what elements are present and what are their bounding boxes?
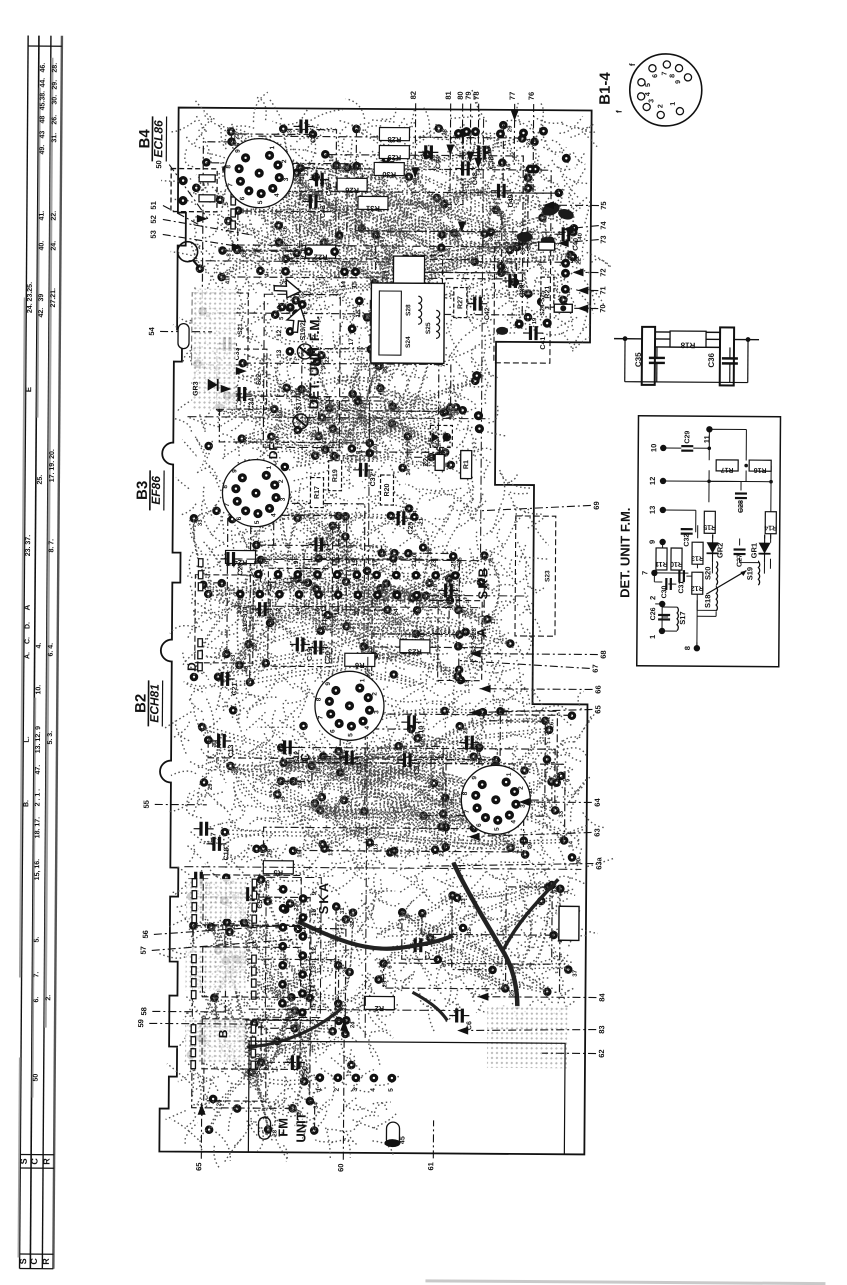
svg-text:S19: S19 (745, 567, 754, 580)
resistor R28 (379, 127, 409, 144)
svg-text:5: 5 (279, 316, 285, 320)
svg-text:R31: R31 (366, 204, 380, 213)
switch assembly S9-S10 (204, 1027, 267, 1101)
svg-text:R11: R11 (655, 560, 668, 567)
svg-text:14: 14 (340, 281, 347, 289)
svg-text:40: 40 (256, 607, 263, 615)
component 45 (384, 1122, 406, 1147)
capacitor C43 (303, 194, 327, 218)
svg-text:17. 19. 20.: 17. 19. 20. (49, 449, 56, 482)
svg-text:77: 77 (508, 92, 517, 100)
svg-text:23: 23 (431, 559, 438, 567)
capacitor C39 (502, 274, 526, 298)
svg-text:1: 1 (359, 678, 366, 682)
terminal lead 80 (455, 91, 465, 185)
svg-text:C47: C47 (476, 746, 483, 759)
svg-text:42.: 42. (38, 308, 45, 318)
component lead lines z0 (202, 123, 574, 316)
resistor R27 (454, 288, 467, 318)
svg-text:12: 12 (648, 477, 657, 485)
terminal lead 63 (469, 827, 602, 837)
label B1-4 (597, 72, 614, 105)
svg-text:C26: C26 (650, 607, 657, 620)
svg-text:R15: R15 (703, 523, 716, 530)
svg-text:22: 22 (373, 608, 380, 616)
switch assembly S13-S14 (195, 575, 254, 663)
svg-text:15: 15 (355, 310, 362, 318)
svg-text:71: 71 (598, 286, 607, 294)
connector SKB pad rows (232, 558, 478, 616)
switch assembly S24-S25 (494, 243, 551, 363)
svg-text:C43: C43 (320, 205, 327, 218)
capacitor C33 (217, 337, 241, 361)
resistor R30 (374, 162, 404, 179)
svg-text:6. 4.: 6. 4. (48, 643, 55, 657)
switch assembly S11-S12 (268, 568, 333, 666)
svg-text:65: 65 (194, 1163, 203, 1171)
svg-text:L.: L. (24, 736, 31, 742)
svg-text:C44: C44 (435, 156, 442, 169)
svg-text:14: 14 (310, 985, 317, 993)
svg-text:8: 8 (225, 165, 232, 169)
capacitor C50 (285, 1055, 309, 1079)
svg-text:C: C (298, 753, 312, 762)
svg-text:13: 13 (311, 966, 318, 974)
svg-text:15, 16.: 15, 16. (34, 859, 41, 881)
svg-text:D: D (185, 662, 199, 671)
svg-text:28.: 28. (52, 63, 59, 73)
stipple patch bottom right (487, 1006, 567, 1069)
svg-text:3: 3 (352, 1088, 359, 1092)
svg-text:R2: R2 (375, 1004, 385, 1013)
svg-text:S18: S18 (703, 595, 712, 608)
solder blobs (496, 200, 575, 335)
svg-text:33: 33 (287, 129, 293, 136)
pads row near R22 (281, 247, 364, 346)
terminal lead 67 (460, 661, 600, 673)
terminal lead 54 (147, 326, 212, 336)
svg-text:13: 13 (276, 349, 283, 357)
svg-text:53: 53 (149, 230, 158, 238)
svg-text:69: 69 (592, 501, 601, 509)
terminal group frame 3 (202, 1019, 300, 1070)
svg-text:16: 16 (329, 155, 335, 162)
svg-text:4: 4 (364, 726, 371, 730)
svg-text:S25: S25 (425, 322, 432, 334)
resistor R2 (364, 996, 394, 1013)
svg-text:DF: DF (266, 443, 280, 459)
switch assembly S26 (402, 255, 443, 345)
svg-text:2: 2 (334, 1088, 341, 1092)
svg-text:R27: R27 (457, 296, 464, 309)
svg-text:60: 60 (336, 1164, 345, 1172)
svg-text:11: 11 (311, 928, 318, 935)
capacitor C15 (188, 872, 212, 896)
svg-text:1: 1 (491, 620, 497, 624)
tube designation label B4 ECL86 (136, 116, 166, 161)
svg-text:29: 29 (507, 125, 513, 132)
label C (298, 753, 312, 762)
svg-text:40.: 40. (38, 241, 45, 251)
svg-text:C21: C21 (232, 682, 239, 695)
svg-text:R17: R17 (314, 486, 321, 499)
capacitor C45 (309, 172, 333, 196)
svg-text:f: f (628, 63, 637, 66)
svg-text:S17/18: S17/18 (296, 388, 303, 410)
svg-text:55: 55 (142, 800, 151, 808)
tube socket B2 (ECH81) (315, 671, 384, 740)
svg-text:C46: C46 (310, 130, 317, 143)
svg-text:54: 54 (147, 326, 156, 335)
svg-text:26: 26 (412, 608, 419, 616)
svg-text:7: 7 (227, 183, 234, 187)
svg-text:C38: C38 (488, 156, 495, 169)
svg-text:46.: 46. (40, 63, 47, 73)
resistor R24 (225, 550, 255, 567)
svg-text:44.: 44. (40, 78, 47, 88)
capacitor C23 (220, 552, 244, 576)
IF transformer S24/S25/S28 (371, 256, 445, 364)
svg-text:R10: R10 (670, 560, 683, 567)
svg-text:DET. UNIT F.M.: DET. UNIT F.M. (307, 316, 323, 410)
terminal lead 53 (149, 230, 243, 247)
svg-text:1: 1 (506, 772, 513, 776)
svg-text:7.: 7. (33, 972, 40, 978)
svg-text:FM: FM (275, 1118, 290, 1137)
svg-text:31.: 31. (51, 133, 58, 143)
terminal lead 76 (526, 92, 536, 201)
capacitor C25 (391, 511, 415, 535)
svg-text:19: 19 (532, 317, 538, 324)
label FM UNIT (275, 1112, 308, 1143)
component lead lines z2 (203, 500, 485, 688)
svg-text:4: 4 (270, 513, 277, 517)
svg-text:E: E (24, 386, 33, 392)
svg-text:1: 1 (670, 102, 677, 106)
svg-text:34: 34 (285, 781, 291, 788)
svg-text:8: 8 (669, 74, 676, 78)
svg-text:4: 4 (413, 510, 419, 514)
svg-text:B.: B. (23, 800, 30, 807)
svg-text:R17: R17 (721, 466, 734, 473)
svg-text:43: 43 (39, 131, 46, 139)
PCB board outline (157, 107, 591, 1154)
svg-text:17: 17 (372, 559, 379, 567)
svg-text:3: 3 (280, 497, 287, 501)
svg-text:27.21.: 27.21. (50, 288, 57, 308)
solder pads cluster z2 (188, 487, 515, 695)
svg-text:C5: C5 (257, 900, 264, 909)
svg-text:S11-S12: S11-S12 (321, 605, 328, 630)
svg-text:21: 21 (357, 394, 363, 401)
svg-text:11: 11 (313, 559, 320, 566)
svg-text:2.: 2. (45, 995, 52, 1001)
svg-text:R5: R5 (273, 868, 283, 877)
svg-text:B: B (216, 1029, 230, 1038)
svg-text:47.: 47. (35, 765, 42, 775)
trimmer S17/18 (293, 388, 308, 429)
svg-text:A: A (474, 627, 489, 637)
svg-text:C18: C18 (223, 847, 230, 860)
svg-text:D.: D. (24, 622, 31, 629)
svg-text:12: 12 (275, 607, 282, 615)
capacitor C48 (455, 162, 479, 186)
svg-text:C7: C7 (425, 951, 432, 960)
capacitor C12 (277, 740, 301, 764)
svg-text:C31: C31 (678, 581, 685, 594)
svg-text:C39: C39 (519, 284, 526, 297)
svg-text:EF86: EF86 (149, 476, 163, 505)
svg-text:C28: C28 (738, 500, 745, 513)
svg-text:2: 2 (281, 159, 288, 163)
component 44 oval (258, 1117, 270, 1139)
svg-text:63: 63 (593, 828, 602, 836)
svg-text:33: 33 (198, 519, 204, 526)
svg-text:1: 1 (269, 146, 276, 150)
resistor R5 (263, 861, 293, 878)
bus lines (dash-dot) (183, 117, 586, 1040)
svg-text:25: 25 (450, 559, 457, 567)
svg-text:7: 7 (640, 571, 649, 575)
svg-text:9: 9 (471, 776, 478, 780)
svg-text:11: 11 (288, 303, 295, 310)
svg-text:6: 6 (239, 196, 246, 200)
svg-text:C42: C42 (484, 307, 491, 320)
svg-text:20: 20 (354, 608, 361, 616)
terminal lead 52 (149, 215, 253, 235)
svg-text:73: 73 (599, 235, 608, 243)
svg-text:A: A (23, 604, 32, 610)
label SKB (475, 566, 490, 600)
resistor R19 (328, 461, 341, 491)
svg-text:74: 74 (599, 221, 608, 230)
svg-text:15: 15 (310, 1004, 317, 1012)
capacitor C38 (471, 146, 495, 170)
svg-text:78: 78 (472, 91, 481, 99)
svg-text:9: 9 (293, 560, 300, 564)
svg-text:C10: C10 (418, 726, 425, 739)
terminal group frame 2 (202, 947, 300, 998)
svg-text:S28: S28 (405, 304, 412, 316)
svg-text:8. 7.: 8. 7. (48, 539, 55, 553)
pads near step (472, 318, 552, 434)
capacitor C22 (252, 602, 276, 626)
svg-text:9: 9 (325, 682, 332, 686)
svg-text:5. 3.: 5. 3. (47, 731, 54, 745)
svg-text:24: 24 (526, 138, 532, 145)
svg-text:C45: C45 (326, 183, 333, 196)
svg-text:83: 83 (597, 1025, 606, 1033)
label SKA (316, 881, 331, 915)
svg-text:3: 3 (373, 710, 380, 714)
label DET. UNIT F.M. (schematic) (617, 508, 633, 598)
svg-text:8: 8 (227, 253, 233, 257)
svg-text:S22: S22 (256, 373, 263, 385)
svg-text:11: 11 (702, 435, 711, 443)
tube designation label B3 EF86 (134, 470, 164, 510)
terminal lead 84 (477, 992, 606, 1002)
terminal lead 78 (471, 91, 480, 160)
resistor R21 (541, 277, 554, 307)
terminal lead 75 (543, 201, 608, 210)
svg-text:7: 7 (317, 715, 324, 719)
svg-text:R22: R22 (314, 253, 328, 262)
svg-text:75: 75 (599, 201, 608, 209)
capacitor C42 (467, 297, 491, 321)
svg-text:67: 67 (591, 664, 600, 672)
terminal lead 50 (154, 160, 208, 219)
svg-text:49.: 49. (39, 145, 46, 155)
capacitor C18 (206, 837, 230, 861)
capacitor C11 (339, 751, 363, 774)
svg-text:59: 59 (136, 1019, 145, 1027)
switch assembly S23 (515, 516, 556, 636)
svg-text:C41: C41 (540, 337, 547, 350)
svg-text:R: R (41, 1258, 51, 1265)
svg-text:R20: R20 (384, 483, 391, 496)
svg-text:58: 58 (139, 1007, 148, 1015)
FM unit pad row 1-5 (315, 1073, 396, 1092)
svg-text:4.: 4. (36, 643, 43, 649)
svg-text:7: 7 (464, 809, 471, 813)
svg-text:5.: 5. (34, 937, 41, 943)
svg-text:C30: C30 (661, 585, 668, 598)
svg-text:GR2: GR2 (716, 543, 725, 558)
svg-text:B1-4: B1-4 (597, 72, 614, 105)
resistor R17 (310, 478, 323, 508)
heavy wire trace 3 (503, 879, 559, 951)
DET area pin pads (276, 300, 307, 357)
terminal lead 57 (139, 938, 293, 955)
svg-text:24. 23.25.: 24. 23.25. (27, 282, 34, 313)
svg-text:4: 4 (510, 820, 517, 824)
svg-text:4: 4 (645, 92, 652, 96)
svg-text:5: 5 (257, 200, 264, 204)
component Z2 (421, 425, 452, 470)
svg-text:S20: S20 (703, 567, 712, 580)
svg-text:24: 24 (350, 1021, 356, 1028)
svg-text:40: 40 (373, 443, 379, 450)
label DET. UNIT F.M. (on board) (307, 316, 323, 410)
label A (section near SKB) (474, 627, 489, 637)
svg-text:R14: R14 (764, 524, 777, 531)
svg-text:29.: 29. (52, 80, 59, 90)
svg-text:S: S (18, 1258, 28, 1264)
svg-text:R: R (42, 1158, 52, 1165)
solder pads cluster z1 (193, 344, 480, 476)
tube socket B4 (ECL86) (224, 138, 293, 207)
svg-text:25.: 25. (37, 475, 44, 485)
terminal lead 63a (418, 855, 603, 870)
solder pads cluster z5 (374, 880, 579, 997)
capacitor C21 (215, 672, 239, 696)
capacitor C24 (308, 537, 332, 561)
svg-text:5: 5 (224, 202, 230, 206)
copper traces (dotted) z4 (155, 842, 401, 1170)
svg-text:22.: 22. (51, 211, 58, 221)
stipple patch left terminals B (185, 1019, 245, 1063)
svg-text:C20: C20 (325, 651, 332, 664)
svg-text:12: 12 (311, 947, 318, 955)
resistor R20 (380, 475, 393, 505)
tube socket B3 (EF86) (222, 459, 290, 526)
copper traces (dotted) z3 (163, 677, 616, 886)
svg-text:48: 48 (39, 116, 46, 124)
svg-text:R26: R26 (345, 186, 359, 195)
DET unit FM schematic components (640, 426, 778, 652)
copper traces (dotted) z1 (174, 313, 506, 504)
terminal lead 72 (572, 268, 607, 277)
svg-text:21: 21 (411, 559, 418, 567)
stipple patch left terminals C (186, 879, 246, 919)
svg-text:2: 2 (648, 596, 657, 600)
svg-text:1: 1 (648, 635, 657, 639)
svg-text:C25: C25 (408, 522, 415, 535)
capacitor C6 (449, 1008, 473, 1030)
svg-text:30: 30 (236, 607, 243, 615)
svg-text:76: 76 (527, 92, 536, 100)
heavy wire trace 1 (452, 863, 518, 1009)
svg-text:C13: C13 (228, 744, 235, 757)
heavy wire trace 4 (247, 1007, 342, 1048)
svg-text:DET. UNIT F.M.: DET. UNIT F.M. (617, 508, 633, 598)
svg-text:R19: R19 (332, 469, 339, 482)
svg-text:10: 10 (649, 444, 658, 452)
svg-text:18. 17.: 18. 17. (34, 817, 41, 839)
terminal rivets (191, 167, 262, 1069)
svg-text:S17: S17 (678, 611, 687, 624)
svg-text:C35: C35 (634, 352, 643, 367)
capacitor C9 (397, 753, 421, 775)
svg-text:7: 7 (224, 503, 231, 507)
svg-text:C23: C23 (237, 562, 244, 575)
svg-text:61: 61 (426, 1162, 435, 1170)
svg-text:GR1: GR1 (750, 543, 759, 558)
svg-text:31: 31 (340, 907, 346, 914)
svg-text:5: 5 (254, 520, 261, 524)
label B (216, 1029, 230, 1038)
svg-text:5: 5 (253, 560, 260, 564)
IF filter R18 with C35 C36 (614, 327, 759, 386)
svg-text:6.: 6. (33, 997, 40, 1003)
svg-text:14: 14 (295, 607, 302, 615)
svg-text:45.38.: 45.38. (39, 91, 46, 111)
svg-text:8: 8 (683, 646, 692, 650)
svg-text:2: 2 (658, 104, 665, 108)
svg-text:C9: C9 (414, 766, 421, 775)
capacitor C5 (240, 887, 264, 909)
svg-text:R30: R30 (382, 170, 396, 179)
svg-text:26.: 26. (51, 115, 58, 125)
resistor R26 (337, 178, 367, 195)
svg-text:17: 17 (348, 338, 355, 346)
terminal lead 81 (443, 91, 453, 200)
svg-text:C36: C36 (707, 352, 716, 367)
svg-text:26: 26 (217, 1099, 223, 1106)
svg-text:13. 12. 9: 13. 12. 9 (35, 726, 42, 753)
svg-text:C32: C32 (684, 534, 691, 547)
svg-text:1: 1 (266, 466, 273, 470)
terminal lead 68 (470, 649, 608, 658)
switch assembly S27-S28 (438, 600, 483, 680)
svg-text:22: 22 (325, 356, 331, 363)
svg-text:62: 62 (597, 1049, 606, 1057)
svg-text:63a: 63a (594, 856, 603, 869)
svg-text:12: 12 (276, 329, 283, 337)
terminal oval 54 (178, 324, 189, 349)
terminal lead 64 (519, 797, 602, 807)
component lead lines z4 (190, 878, 348, 1131)
